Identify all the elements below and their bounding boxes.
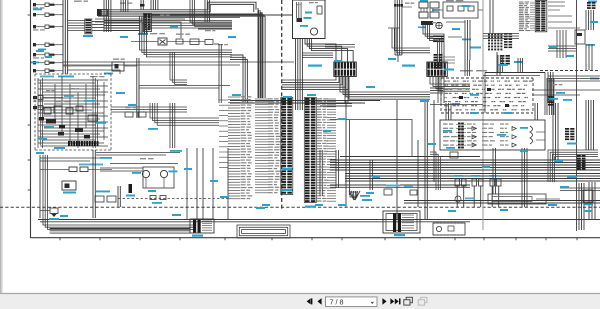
svg-text:7 / 8: 7 / 8 xyxy=(330,297,344,306)
